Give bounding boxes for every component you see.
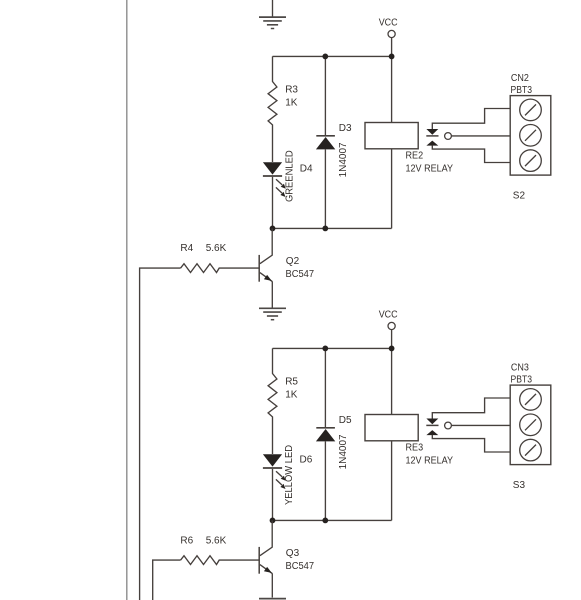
- svg-text:5.6K: 5.6K: [206, 243, 227, 254]
- svg-text:D6: D6: [300, 455, 313, 466]
- svg-text:D3: D3: [339, 123, 352, 134]
- svg-text:YELLOW LED: YELLOW LED: [284, 445, 295, 505]
- svg-text:RE2: RE2: [406, 151, 424, 162]
- svg-text:PBT3: PBT3: [511, 85, 533, 96]
- svg-text:R3: R3: [285, 85, 298, 96]
- svg-text:1K: 1K: [285, 97, 298, 108]
- svg-text:PBT3: PBT3: [511, 375, 533, 386]
- svg-text:1K: 1K: [285, 389, 298, 400]
- svg-text:1N4007: 1N4007: [338, 142, 349, 177]
- svg-text:VCC: VCC: [379, 310, 398, 321]
- svg-text:VCC: VCC: [379, 18, 398, 29]
- svg-text:D5: D5: [339, 415, 352, 426]
- svg-text:BC547: BC547: [286, 561, 315, 572]
- svg-text:R4: R4: [180, 243, 193, 254]
- svg-text:12V RELAY: 12V RELAY: [406, 164, 454, 175]
- svg-text:BC547: BC547: [286, 269, 315, 280]
- svg-text:GREENLED: GREENLED: [284, 150, 295, 202]
- svg-text:Q3: Q3: [286, 548, 300, 559]
- svg-text:CN3: CN3: [511, 362, 529, 373]
- svg-text:R6: R6: [180, 535, 193, 546]
- svg-text:CN2: CN2: [511, 73, 529, 84]
- svg-text:S2: S2: [513, 190, 526, 201]
- svg-text:5.6K: 5.6K: [206, 535, 227, 546]
- svg-text:D4: D4: [300, 163, 313, 174]
- svg-text:R5: R5: [285, 377, 298, 388]
- svg-text:12V RELAY: 12V RELAY: [406, 456, 454, 467]
- svg-text:RE3: RE3: [406, 443, 424, 454]
- svg-text:S3: S3: [513, 480, 526, 491]
- svg-text:Q2: Q2: [286, 256, 300, 267]
- svg-text:1N4007: 1N4007: [338, 434, 349, 469]
